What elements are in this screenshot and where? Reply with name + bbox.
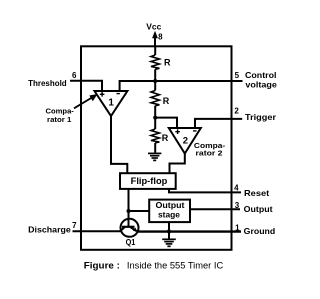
svg-text:Q1: Q1 bbox=[126, 237, 136, 247]
comparator 2 minus input bbox=[193, 130, 196, 132]
output wire (pin 3) bbox=[190, 208, 240, 210]
svg-text:Vcc: Vcc bbox=[146, 22, 161, 32]
threshold wire (pin 6) bbox=[70, 81, 102, 91]
svg-text:Reset: Reset bbox=[244, 188, 269, 198]
svg-text:voltage: voltage bbox=[245, 80, 277, 90]
wire: R1 to control-voltage line bbox=[154, 69, 156, 90]
svg-text:Inside the 555 Timer IC: Inside the 555 Timer IC bbox=[127, 261, 224, 271]
op-amp comparator 1 bbox=[95, 91, 128, 116]
svg-text:3: 3 bbox=[235, 201, 240, 210]
node: divider junction bbox=[153, 116, 157, 120]
Vcc pin 8 arrow bbox=[152, 31, 158, 47]
wire: comparator 2 output to flip-flop bbox=[170, 154, 185, 174]
wire: comparator 1 output to flip-flop bbox=[111, 116, 127, 173]
svg-text:rator 2: rator 2 bbox=[196, 148, 223, 157]
discharge wire (pin 7) bbox=[73, 230, 121, 232]
svg-text:7: 7 bbox=[72, 221, 77, 230]
svg-text:Trigger: Trigger bbox=[245, 112, 277, 122]
wire: output stage to ground rail bbox=[168, 222, 170, 239]
comparator 1 plus input bbox=[100, 92, 105, 97]
comparator 1 minus input bbox=[117, 93, 120, 95]
svg-text:1: 1 bbox=[235, 223, 240, 232]
control voltage wire (pin 5) bbox=[120, 81, 243, 91]
ground (divider) bbox=[148, 153, 161, 160]
svg-text:2: 2 bbox=[183, 136, 188, 147]
svg-text:Flip-flop: Flip-flop bbox=[131, 176, 168, 186]
transistor Q1 bbox=[120, 219, 138, 237]
node: cv x divider bbox=[153, 79, 157, 83]
svg-text:R: R bbox=[164, 58, 171, 68]
flip-flop box U2 bbox=[120, 173, 176, 189]
svg-text:Threshold: Threshold bbox=[28, 78, 67, 88]
reset wire (pin 4) bbox=[169, 189, 241, 192]
wire: Vcc rail to resistor chain bbox=[154, 46, 156, 55]
wire: branch to output stage bbox=[129, 210, 150, 212]
svg-text:4: 4 bbox=[234, 183, 239, 192]
svg-text:Discharge: Discharge bbox=[28, 225, 71, 235]
outer box bbox=[81, 46, 232, 250]
wire: R2 to junction bbox=[154, 106, 156, 129]
wire: R junction to comparator 2 plus bbox=[155, 118, 177, 128]
output stage box bbox=[149, 200, 190, 223]
svg-text:1: 1 bbox=[108, 97, 114, 108]
svg-text:R: R bbox=[163, 96, 170, 106]
svg-text:Ground: Ground bbox=[244, 226, 276, 236]
svg-text:Output: Output bbox=[244, 204, 273, 214]
ground rail / pin 1 wire bbox=[137, 230, 241, 232]
ground (output) bbox=[162, 239, 176, 246]
resistor R3 bbox=[151, 129, 159, 143]
op-amp comparator 2 bbox=[169, 128, 201, 154]
node: branch to output stage bbox=[127, 209, 131, 213]
svg-text:2: 2 bbox=[234, 106, 239, 115]
node: ground rail junction bbox=[167, 229, 171, 233]
pointer arrow to comparator 1 bbox=[74, 94, 98, 108]
svg-text:stage: stage bbox=[158, 210, 180, 220]
svg-text:5: 5 bbox=[235, 71, 240, 80]
svg-text:Figure :: Figure : bbox=[84, 261, 120, 271]
trigger wire (pin 2) bbox=[195, 119, 242, 128]
resistor R2 bbox=[151, 91, 159, 106]
svg-text:6: 6 bbox=[72, 71, 77, 80]
svg-text:R: R bbox=[162, 133, 169, 143]
svg-text:rator 1: rator 1 bbox=[47, 115, 71, 124]
resistor R1 bbox=[151, 55, 159, 69]
wire: R3 to ground bbox=[154, 143, 156, 153]
comparator 2 plus input bbox=[175, 129, 180, 134]
wire: flip-flop to Q1 base bbox=[128, 189, 130, 227]
svg-text:8: 8 bbox=[158, 32, 163, 41]
svg-text:Output: Output bbox=[156, 200, 185, 210]
